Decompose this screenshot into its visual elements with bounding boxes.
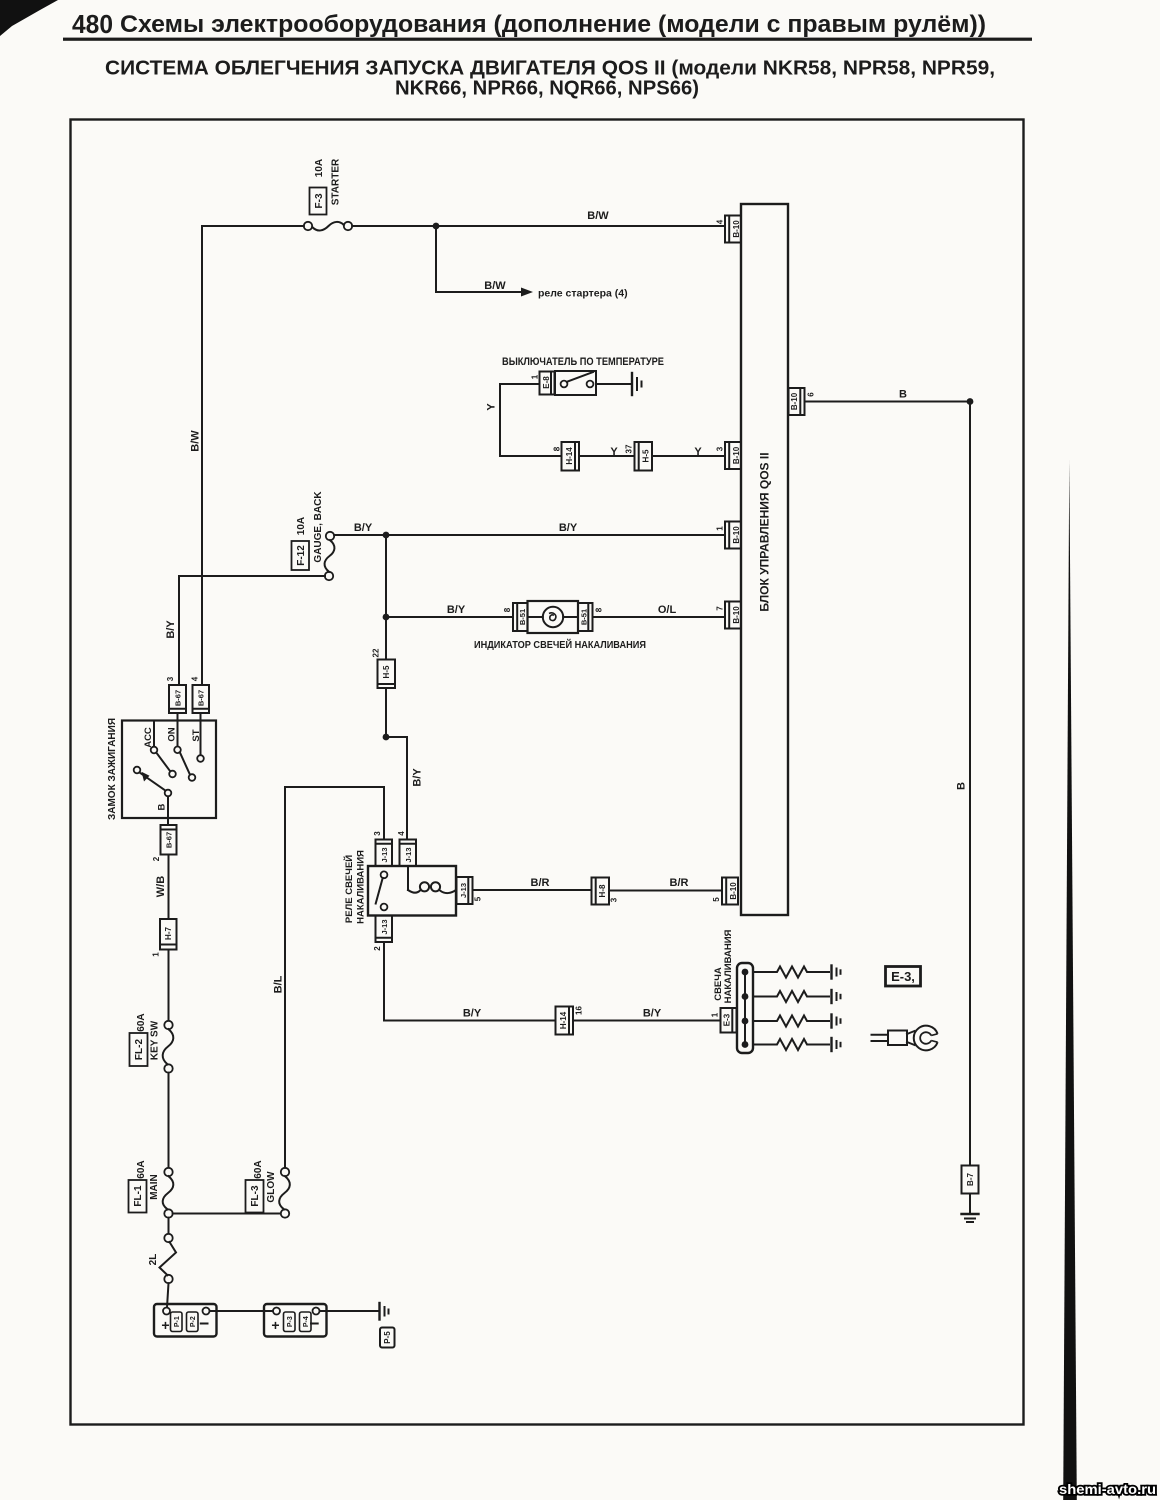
svg-text:2L: 2L	[148, 1254, 159, 1266]
svg-text:B: B	[956, 782, 968, 790]
connector H-14 pin 16	[556, 1006, 584, 1035]
svg-text:60A: 60A	[136, 1013, 147, 1031]
ring terminal icon	[872, 1026, 938, 1051]
svg-text:B-67: B-67	[174, 690, 183, 706]
svg-text:8: 8	[503, 607, 512, 612]
connector J-13 pin 3	[373, 831, 392, 866]
svg-text:B-10: B-10	[732, 606, 741, 624]
connector B-7	[962, 1166, 979, 1194]
glow plug 3	[742, 1015, 841, 1028]
svg-text:P-4: P-4	[303, 1316, 310, 1327]
connector B-10 pin 5	[712, 878, 738, 905]
svg-text:NKR66, NPR66, NQR66, NPS66): NKR66, NPR66, NQR66, NPS66)	[395, 78, 699, 100]
wire to FL-1	[168, 1073, 170, 1168]
wire Y from temp switch	[486, 384, 632, 456]
glow plug relay РЕЛЕ СВЕЧЕЙ НАКАЛИВАНИЯ	[343, 850, 456, 924]
svg-text:60A: 60A	[136, 1160, 147, 1178]
connector H-8 pin 3	[592, 878, 619, 905]
svg-text:H-5: H-5	[642, 449, 651, 462]
svg-text:O/L: O/L	[658, 604, 677, 616]
svg-text:ВЫКЛЮЧАТЕЛЬ ПО ТЕМПЕРАТУРЕ: ВЫКЛЮЧАТЕЛЬ ПО ТЕМПЕРАТУРЕ	[502, 356, 664, 368]
svg-text:E-3: E-3	[723, 1013, 732, 1026]
svg-text:1: 1	[531, 374, 540, 379]
svg-text:E-8: E-8	[542, 376, 551, 389]
svg-text:H-14: H-14	[559, 1011, 568, 1029]
svg-text:P-5: P-5	[383, 1331, 392, 1344]
svg-text:F-12: F-12	[296, 545, 307, 566]
connector B-10 pin 4	[716, 216, 742, 243]
svg-text:5: 5	[474, 896, 483, 901]
svg-text:B-10: B-10	[732, 526, 741, 544]
battery P-3 P-4	[264, 1304, 327, 1337]
svg-text:РЕЛЕ СВЕЧЕЙ: РЕЛЕ СВЕЧЕЙ	[343, 855, 355, 923]
svg-text:2: 2	[373, 946, 382, 951]
junction node B/Y	[383, 532, 390, 539]
svg-text:B/Y: B/Y	[559, 522, 578, 534]
svg-text:5: 5	[712, 897, 721, 902]
svg-text:B-10: B-10	[729, 882, 738, 900]
svg-text:8: 8	[595, 607, 604, 612]
svg-text:FL-2: FL-2	[134, 1039, 145, 1061]
title underline	[63, 38, 1032, 41]
svg-text:B/W: B/W	[190, 430, 202, 452]
wire W/B	[155, 855, 169, 920]
svg-text:3: 3	[610, 897, 619, 902]
svg-text:GAUGE, BACK: GAUGE, BACK	[313, 491, 324, 563]
svg-text:P-2: P-2	[190, 1316, 197, 1327]
temperature switch контакт	[555, 371, 596, 395]
wire B/Y vertical to relay	[385, 535, 387, 737]
svg-text:KEY SW: KEY SW	[150, 1020, 161, 1060]
wire O/L to ECU pin 7	[593, 604, 726, 617]
wire B/Y to glow indicator	[386, 604, 513, 617]
connector B-10 pin 3	[716, 442, 742, 469]
svg-text:B/Y: B/Y	[463, 1008, 482, 1020]
svg-text:B/Y: B/Y	[643, 1008, 662, 1020]
junction node B/Y relay branch	[383, 734, 390, 741]
junction node B/W	[433, 223, 440, 230]
connector B-67 pin 3	[166, 676, 186, 713]
svg-text:6: 6	[807, 392, 816, 397]
wire link 2L	[148, 1218, 176, 1308]
connector B-10 pin 1	[716, 522, 742, 549]
scan artifact top-left corner	[0, 0, 58, 36]
svg-text:Y: Y	[694, 446, 702, 458]
svg-text:MAIN: MAIN	[149, 1174, 160, 1200]
fusible link FL-3 60A GLOW	[246, 1160, 290, 1217]
wires B-67 into ignition switch	[178, 713, 201, 721]
wire B/Y jog to relay coil pin 4	[386, 737, 424, 840]
wire B/Y from relay pin 2 to H-14	[384, 942, 556, 1021]
svg-text:F-3: F-3	[314, 193, 325, 208]
svg-text:2: 2	[152, 856, 161, 861]
svg-text:B-10: B-10	[732, 446, 741, 464]
ECU БЛОК УПРАВЛЕНИЯ QOS II	[741, 204, 788, 915]
svg-text:E-3,: E-3,	[891, 969, 915, 984]
ground B-7	[962, 1214, 979, 1222]
connector J-13 pin 2	[373, 916, 392, 951]
svg-text:B-10: B-10	[790, 392, 799, 410]
connector H-14 pin 8	[553, 442, 580, 471]
battery P-1 P-2	[154, 1304, 217, 1337]
svg-text:3: 3	[373, 831, 382, 836]
wire B/W branch to starter relay	[436, 226, 628, 300]
svg-text:10A: 10A	[314, 159, 325, 177]
svg-text:60A: 60A	[253, 1160, 264, 1178]
connector H-7 pin 1	[152, 919, 177, 957]
svg-text:B-51: B-51	[580, 609, 589, 625]
svg-text:H-8: H-8	[598, 884, 607, 897]
svg-text:H-14: H-14	[565, 447, 574, 465]
fusible link FL-2 60A KEY SW	[130, 1013, 174, 1072]
svg-text:10A: 10A	[296, 517, 307, 535]
svg-text:B/W: B/W	[484, 280, 506, 292]
svg-text:БЛОК УПРАВЛЕНИЯ QOS II: БЛОК УПРАВЛЕНИЯ QOS II	[758, 452, 772, 611]
svg-text:+: +	[161, 1317, 169, 1333]
connector J-13 pin 5	[457, 877, 483, 904]
svg-text:реле стартера (4): реле стартера (4)	[538, 288, 628, 300]
wire to FL-2	[168, 950, 170, 1021]
svg-text:ON: ON	[167, 727, 178, 741]
fuse F-3 10A STARTER	[304, 158, 352, 231]
connector B-67 pin 4	[191, 676, 210, 713]
wire B/Y to glow plugs E-3	[573, 1008, 721, 1021]
svg-text:1: 1	[152, 952, 161, 957]
wire Y to ECU pin 3	[652, 446, 725, 458]
svg-text:B/W: B/W	[587, 210, 609, 222]
fusible link FL-1 60A MAIN	[129, 1160, 174, 1217]
svg-text:shemi-avto.ru: shemi-avto.ru	[1059, 1481, 1156, 1497]
junction node B	[967, 398, 974, 405]
svg-text:НАКАЛИВАНИЯ: НАКАЛИВАНИЯ	[723, 929, 734, 1003]
ground P-5	[380, 1303, 395, 1348]
svg-text:P-3: P-3	[287, 1316, 294, 1327]
svg-text:ST: ST	[191, 729, 202, 741]
glow plugs bus СВЕЧА НАКАЛИВАНИЯ	[713, 929, 753, 1053]
wire B/W top row	[202, 210, 725, 226]
connector B-10 pin 7	[716, 602, 742, 629]
wire link FL-1 to FL-3	[173, 1213, 281, 1215]
connector B-10 pin 6	[789, 388, 816, 415]
svg-text:FL-3: FL-3	[250, 1185, 261, 1207]
connector H-5 pin 22	[372, 648, 396, 688]
wire B-7 to ground	[969, 1194, 971, 1214]
wire between batteries	[210, 1310, 273, 1312]
svg-text:ACC: ACC	[143, 727, 154, 748]
svg-text:8: 8	[553, 446, 562, 451]
wire B/R relay to H-8	[473, 877, 592, 890]
glow plug 4	[742, 1038, 841, 1051]
svg-text:ЗАМОК ЗАЖИГАНИЯ: ЗАМОК ЗАЖИГАНИЯ	[107, 718, 118, 820]
svg-text:GLOW: GLOW	[266, 1171, 277, 1203]
glow plug 2	[742, 990, 841, 1003]
svg-text:4: 4	[397, 831, 406, 836]
svg-text:480: 480	[72, 9, 113, 39]
svg-text:H-5: H-5	[382, 665, 391, 678]
svg-text:J-13: J-13	[380, 847, 389, 862]
svg-text:B/Y: B/Y	[412, 768, 424, 787]
ground (temperature switch)	[632, 373, 642, 395]
scan artifact right wedge	[1063, 460, 1077, 1500]
svg-text:B-7: B-7	[966, 1173, 975, 1186]
svg-text:B/Y: B/Y	[447, 604, 466, 616]
svg-text:ИНДИКАТОР СВЕЧЕЙ НАКАЛИВАНИЯ: ИНДИКАТОР СВЕЧЕЙ НАКАЛИВАНИЯ	[474, 638, 646, 651]
svg-text:Y: Y	[610, 446, 618, 458]
svg-text:B/R: B/R	[670, 877, 689, 889]
connector E-8 pin 1	[531, 372, 555, 395]
svg-text:1: 1	[716, 526, 725, 531]
wire B from ECU pin 6	[805, 389, 971, 402]
svg-text:B-10: B-10	[732, 220, 741, 238]
svg-text:3: 3	[716, 446, 725, 451]
svg-text:Схемы электрооборудования (доп: Схемы электрооборудования (дополнение (м…	[120, 11, 986, 38]
junction node B/Y indicator branch	[383, 614, 390, 621]
svg-text:3: 3	[166, 676, 175, 681]
svg-text:СИСТЕМА ОБЛЕГЧЕНИЯ ЗАПУСКА ДВИ: СИСТЕМА ОБЛЕГЧЕНИЯ ЗАПУСКА ДВИГАТЕЛЯ QOS…	[105, 58, 995, 80]
wire B/Y top row to ECU pin 1	[334, 522, 725, 535]
svg-text:16: 16	[575, 1006, 584, 1015]
svg-text:B-51: B-51	[518, 609, 527, 625]
wire B/Y to ignition switch branch	[165, 576, 325, 685]
svg-text:B/R: B/R	[531, 877, 550, 889]
svg-text:STARTER: STARTER	[331, 158, 342, 205]
svg-text:B/Y: B/Y	[354, 522, 373, 534]
connector J-13 pin 4	[397, 831, 416, 866]
svg-text:J-13: J-13	[404, 847, 413, 862]
svg-text:7: 7	[716, 606, 725, 611]
watermark shemi-avto.ru	[1059, 1481, 1156, 1497]
svg-text:J-13: J-13	[459, 883, 468, 898]
wire battery to ground	[320, 1310, 378, 1312]
glow plug indicator lamp	[474, 601, 646, 651]
connector E-3 pin 1	[711, 1008, 737, 1033]
ignition switch ЗАМОК ЗАЖИГАНИЯ	[107, 718, 216, 825]
connector B-51 pin 8 right	[578, 603, 604, 631]
connector label E-3	[886, 967, 921, 987]
svg-text:37: 37	[625, 444, 634, 453]
svg-text:+: +	[271, 1317, 279, 1333]
svg-text:B: B	[899, 389, 907, 401]
svg-text:B-67: B-67	[165, 832, 174, 848]
svg-text:НАКАЛИВАНИЯ: НАКАЛИВАНИЯ	[356, 850, 367, 924]
svg-text:4: 4	[191, 676, 200, 681]
wire B/L	[273, 787, 385, 1168]
svg-text:W/B: W/B	[155, 876, 167, 897]
svg-text:FL-1: FL-1	[133, 1185, 144, 1207]
svg-text:1: 1	[711, 1012, 720, 1017]
wire B/R to ECU pin 5	[609, 877, 722, 891]
svg-text:B-67: B-67	[197, 690, 206, 706]
svg-text:Y: Y	[486, 403, 498, 411]
svg-text:H-7: H-7	[164, 927, 173, 940]
connector B-51 pin 8 left	[503, 603, 528, 631]
fuse F-12 10A GAUGE, BACK	[292, 491, 335, 581]
svg-text:B: B	[157, 803, 168, 810]
connector B-67 pin 2	[152, 825, 177, 861]
svg-text:P-1: P-1	[174, 1316, 181, 1327]
svg-text:B/L: B/L	[273, 975, 285, 993]
connector H-5 pin 37	[625, 442, 653, 471]
svg-text:B/Y: B/Y	[165, 620, 177, 639]
svg-text:22: 22	[372, 648, 381, 657]
svg-text:J-13: J-13	[380, 919, 389, 934]
svg-text:4: 4	[716, 219, 725, 224]
wire B/W left vertical to ignition switch	[190, 226, 203, 685]
glow plug 1	[742, 966, 841, 979]
wire Y between H-14 and H-5	[579, 446, 635, 458]
wire B vertical to B-7	[956, 402, 971, 1166]
